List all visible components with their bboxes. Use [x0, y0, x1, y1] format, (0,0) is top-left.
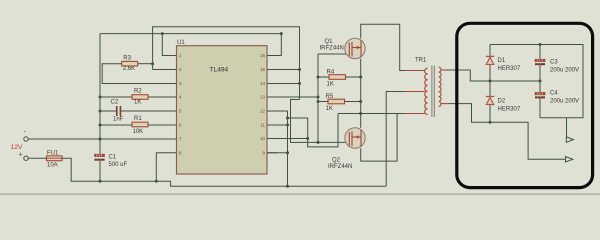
node Q2 gate junction — [317, 141, 320, 144]
svg-text:IRFZ44N: IRFZ44N — [328, 164, 352, 170]
svg-text:C1: C1 — [109, 155, 117, 161]
transformer TR1 — [404, 58, 447, 118]
node pin8 feed rail junction — [155, 180, 158, 183]
wire R5 left — [318, 101, 328, 103]
svg-text:HER307: HER307 — [498, 66, 521, 72]
wire plus terminal to fuse — [28, 157, 46, 159]
wire box top rail — [490, 45, 583, 118]
op-amp U1 TL494 body — [177, 40, 268, 174]
wire secondary top into box — [447, 70, 491, 81]
node pin1 feed junction — [161, 32, 164, 35]
resistor R2 — [132, 88, 148, 105]
capacitor C3 — [535, 59, 579, 73]
wire primary center tap to plus rail — [386, 92, 404, 187]
wire D2 anode down — [489, 105, 491, 123]
wire pin15 stub — [267, 69, 300, 71]
svg-text:FU1: FU1 — [47, 151, 59, 157]
node C1 to +12V rail junction — [99, 180, 102, 183]
svg-text:C3: C3 — [550, 60, 558, 66]
wire fuse to plus rail — [62, 158, 386, 186]
wire Q1 source column down to Q2 drain — [360, 59, 362, 128]
capacitor C2 — [111, 100, 124, 123]
wire D2 cathode up to junction — [489, 81, 491, 97]
wire pin8 feed from rail — [156, 153, 176, 182]
diode D1 HER307 — [486, 56, 521, 71]
node battery-minus bus junction — [99, 138, 102, 141]
U1 right pin stubs — [267, 56, 277, 153]
wire Q1 gate — [318, 53, 349, 55]
node C3-C4 mid-rail junction — [539, 80, 542, 83]
wire Q1 drain to transformer top — [361, 24, 404, 70]
wire R3 right to net — [138, 63, 153, 65]
wire C3 top feed — [539, 45, 541, 60]
svg-text:11: 11 — [260, 123, 265, 128]
wire pin12 vcc jog — [267, 111, 288, 186]
svg-text:12V: 12V — [11, 144, 24, 151]
svg-text:10K: 10K — [133, 129, 144, 135]
wire R5 right — [345, 101, 361, 103]
node vcc rail junction — [286, 185, 289, 188]
node R1-gnd bus junction — [99, 124, 102, 127]
wire pin1 feed — [162, 34, 176, 56]
U1 pin numbers — [179, 53, 266, 155]
svg-text:R2: R2 — [134, 88, 142, 94]
wire minus terminal to pin7 — [28, 138, 176, 140]
svg-text:13: 13 — [260, 95, 265, 100]
wire D1 cathode up — [489, 45, 491, 57]
wire pin13 stub — [267, 96, 318, 98]
node TR1 primary-bottom junction — [359, 112, 362, 115]
node pin10 riser junction — [286, 117, 289, 120]
svg-text:1nF: 1nF — [113, 117, 124, 123]
node pin11 junction — [286, 124, 289, 127]
wire mid rail D junction to caps — [490, 80, 540, 82]
wire gate net vertical x=318 — [317, 54, 319, 142]
resistor R4 — [327, 70, 346, 88]
svg-text:1K: 1K — [134, 100, 141, 106]
svg-text:C4: C4 — [550, 91, 558, 97]
svg-text:U1: U1 — [177, 40, 185, 46]
node D1-D2 mid junction — [489, 80, 492, 83]
wire secondary bottom into box — [447, 104, 566, 160]
node R2-gnd bus junction — [99, 96, 102, 99]
wire pin16 jog — [267, 34, 281, 56]
wire C3 bottom to mid — [539, 65, 541, 92]
output section rounded border — [457, 23, 593, 187]
svg-text:C2: C2 — [111, 100, 119, 106]
battery plus terminal — [24, 156, 28, 160]
node pin9 junction — [286, 151, 289, 154]
svg-text:10: 10 — [260, 136, 265, 141]
node R3-pin2 junction — [151, 62, 154, 65]
node pin15 junction — [298, 68, 301, 71]
svg-text:500 uF: 500 uF — [109, 162, 128, 168]
wire primary bottom row — [338, 113, 404, 115]
wire pin14 stub — [267, 83, 300, 85]
node pin10 junction — [306, 137, 309, 140]
transistor Q2 IRFZ44N — [328, 128, 365, 170]
svg-text:+: + — [19, 152, 23, 159]
node C2-gnd bus junction — [99, 110, 102, 113]
TR1 core — [431, 66, 433, 118]
wire ground rail y=33.6 — [100, 33, 281, 35]
node D2 anode junction — [489, 121, 492, 124]
svg-text:1K: 1K — [326, 106, 333, 112]
TR1 primary coil — [425, 68, 428, 114]
svg-text:Q2: Q2 — [332, 158, 341, 164]
svg-text:200u 200V: 200u 200V — [550, 99, 579, 105]
node R5 drain-column junction — [359, 100, 362, 103]
svg-text:2.6K: 2.6K — [123, 66, 135, 72]
resistor R1 — [132, 116, 148, 135]
svg-text:TR1: TR1 — [415, 58, 427, 64]
svg-text:14: 14 — [260, 81, 265, 86]
wire R2 row pin4 — [100, 96, 177, 98]
wire ground bus vertical x=100 — [99, 34, 101, 155]
diode D2 HER307 — [486, 97, 521, 113]
battery 12V labels — [11, 129, 27, 159]
svg-text:16: 16 — [260, 53, 265, 58]
svg-text:Q1: Q1 — [325, 39, 334, 45]
wire R4 left — [318, 76, 329, 78]
node R5 gate-net junction — [317, 100, 320, 103]
wire pin9 stub — [267, 152, 288, 154]
photo edge border — [0, 193, 600, 195]
wire R3 left loop to pin3 — [102, 64, 176, 84]
wire pin10 riser — [288, 114, 339, 147]
wire to output arrow 1 — [566, 118, 568, 140]
wire C1 bottom — [99, 161, 101, 182]
wire pin10 jog — [267, 138, 308, 140]
svg-text:HER307: HER307 — [498, 106, 521, 112]
node R4 gate-net junction — [317, 76, 320, 79]
svg-text:1K: 1K — [327, 81, 334, 87]
svg-text:IRFZ44N: IRFZ44N — [320, 46, 344, 52]
svg-text:12: 12 — [260, 109, 265, 114]
wire C4 bottom down — [539, 98, 541, 117]
battery minus terminal — [24, 137, 28, 141]
svg-text:R4: R4 — [327, 70, 335, 76]
resistor R3 — [122, 55, 138, 72]
svg-text:10A: 10A — [47, 163, 58, 169]
output arrow 1 — [566, 137, 573, 142]
node C3 top-rail junction — [539, 43, 542, 46]
TR1 secondary coil — [439, 67, 441, 106]
node pin14 junction — [298, 82, 301, 85]
output arrow 2 — [566, 157, 573, 162]
svg-text:TL494: TL494 — [210, 66, 229, 73]
svg-text:D1: D1 — [498, 58, 506, 64]
TR1 primary terminals — [404, 71, 425, 114]
wire net to Q2 gate — [291, 100, 350, 143]
wire top rail y=26.7 — [153, 27, 300, 100]
svg-text:200u 200V: 200u 200V — [550, 68, 579, 74]
capacitor C4 — [535, 91, 579, 105]
TR1 secondary terminals — [441, 70, 447, 104]
svg-text:D2: D2 — [498, 99, 506, 105]
wire pin11 stub — [267, 124, 288, 126]
svg-text:R3: R3 — [123, 55, 131, 61]
wire R1 row pin6 — [100, 124, 177, 126]
svg-text:R5: R5 — [326, 94, 334, 100]
wire C2 left — [100, 110, 116, 112]
wire Q2 source — [361, 114, 397, 162]
transistor Q1 IRFZ44N — [320, 38, 366, 58]
node Q1 source R4 junction — [359, 76, 362, 79]
resistor R5 — [326, 94, 345, 112]
node pin13 gate-net junction — [317, 96, 320, 99]
wire D1 anode down to junction — [489, 65, 491, 82]
wire C2 right to pin5 — [121, 110, 177, 112]
svg-text:R1: R1 — [134, 116, 142, 122]
wire pin2 stub — [153, 69, 177, 71]
svg-text:15: 15 — [260, 67, 265, 72]
node pin16 rail junction — [280, 32, 283, 35]
wire R4 right to source column — [346, 76, 361, 78]
capacitor C1 — [95, 154, 128, 168]
fuse FU1 — [47, 151, 63, 169]
